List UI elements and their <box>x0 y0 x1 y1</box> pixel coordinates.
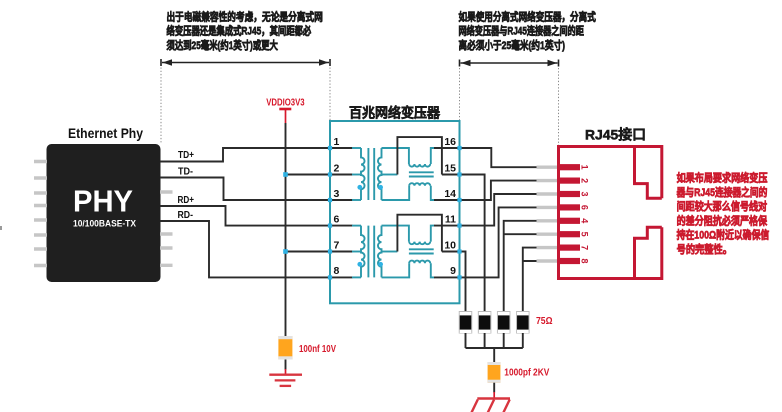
resistor R4 75ohm <box>517 312 530 334</box>
wire RJ45 pins7+8 to R4 <box>523 248 537 312</box>
transformer right pin labels <box>444 136 456 277</box>
center tap over-route wire <box>397 137 442 174</box>
svg-text:RD+: RD+ <box>178 195 195 206</box>
transformer core <box>368 226 374 278</box>
svg-text:7: 7 <box>580 245 590 250</box>
PHY right unconnected pins <box>160 192 173 265</box>
wire pin11 to RJ45 pin3 <box>434 194 537 226</box>
svg-text:器与RJ45连接器之间的: 器与RJ45连接器之间的 <box>676 185 768 199</box>
dotted guide line at transformer left edge <box>329 68 331 121</box>
svg-text:5: 5 <box>580 232 590 237</box>
wire pin9 to RJ45 pin6 <box>434 207 537 277</box>
capacitor C2 1000pf 2KV <box>488 362 501 383</box>
common-mode choke top winding <box>382 226 409 242</box>
svg-text:1: 1 <box>334 136 340 148</box>
RJ45 connector J1 outline <box>559 147 662 279</box>
VDDIO vertical rail wire <box>285 123 287 336</box>
svg-text:10: 10 <box>444 239 456 251</box>
transformer primary winding <box>361 148 365 200</box>
svg-text:出于电磁兼容性的考虑，无论是分离式网: 出于电磁兼容性的考虑，无论是分离式网 <box>167 9 323 23</box>
svg-text:Ethernet Phy: Ethernet Phy <box>68 125 143 141</box>
resistor R2 75ohm <box>478 312 491 334</box>
svg-text:6: 6 <box>334 213 340 225</box>
RJ45 pin bars <box>559 164 581 264</box>
wire RD- to transformer pin 8 <box>160 221 353 277</box>
center tap over-route wire <box>397 215 442 252</box>
primary center tap <box>352 174 361 176</box>
svg-text:8: 8 <box>334 265 340 277</box>
wire pin14 to RJ45 pin2 <box>434 181 537 200</box>
annotation text block red (right) <box>676 171 769 257</box>
chassis ground symbol <box>471 399 510 412</box>
svg-text:PHY: PHY <box>73 185 133 219</box>
earth ground symbol <box>269 375 302 386</box>
resistor R3 75ohm <box>497 312 510 334</box>
RJ45 pin numbers <box>580 165 590 264</box>
choke core <box>409 172 434 176</box>
choke core <box>409 249 434 253</box>
secondary center tap <box>382 174 398 176</box>
svg-text:1000pf 2KV: 1000pf 2KV <box>504 367 549 378</box>
svg-text:TD+: TD+ <box>178 150 194 161</box>
junction node at pin 7 tap <box>283 249 288 254</box>
svg-text:15: 15 <box>444 162 456 174</box>
svg-text:须达到25毫米(约1英寸)或更大: 须达到25毫米(约1英寸)或更大 <box>167 38 278 52</box>
svg-text:9: 9 <box>450 265 456 277</box>
svg-text:VDDIO3V3: VDDIO3V3 <box>266 98 305 109</box>
dimension arrow transformer-to-RJ45 <box>460 60 559 67</box>
dotted guide line at PHY right edge <box>160 68 162 144</box>
svg-text:100nf 10V: 100nf 10V <box>299 344 336 355</box>
transformer secondary winding <box>378 148 382 200</box>
svg-text:号的完整性。: 号的完整性。 <box>677 242 732 256</box>
svg-text:如果使用分离式网络变压器，分离式: 如果使用分离式网络变压器，分离式 <box>459 9 596 23</box>
svg-text:16: 16 <box>444 136 456 148</box>
dotted guide line at transformer right edge <box>459 68 461 121</box>
svg-text:1: 1 <box>580 165 590 170</box>
svg-text:11: 11 <box>445 213 456 225</box>
wire cap C1 to earth ground <box>285 360 287 370</box>
wire RD+ to transformer pin 6 <box>160 206 353 226</box>
annotation text block 1 <box>167 9 323 52</box>
svg-text:RJ45接口: RJ45接口 <box>585 127 646 143</box>
junction node at pin 2 tap <box>283 172 288 177</box>
common-mode choke bottom winding <box>382 186 410 200</box>
svg-text:2: 2 <box>580 178 590 183</box>
secondary center tap <box>382 251 398 253</box>
resistor R1 75ohm <box>459 312 472 334</box>
svg-text:8: 8 <box>580 258 590 263</box>
svg-text:络变压器还是集成式RJ45，其间距都必: 络变压器还是集成式RJ45，其间距都必 <box>167 24 312 38</box>
svg-text:14: 14 <box>444 188 456 200</box>
transformer left pin labels <box>334 136 340 277</box>
svg-text:7: 7 <box>334 239 340 251</box>
VDDIO3V3 power symbol <box>279 108 291 111</box>
left edge fragment <box>0 226 2 230</box>
wire pin16 to RJ45 pin1 <box>434 148 537 167</box>
resistor bottom bus wire <box>466 333 523 362</box>
svg-text:间距较大那么信号线对: 间距较大那么信号线对 <box>677 199 768 213</box>
svg-text:4: 4 <box>580 218 590 223</box>
wire crossing nodes on box edges <box>328 146 462 280</box>
svg-text:10/100BASE-TX: 10/100BASE-TX <box>73 219 137 230</box>
capacitor C1 100nf 10V <box>278 336 292 360</box>
RJ45 connector gray stubs <box>537 167 560 261</box>
wire VDDIO to transformer pin 2 <box>286 174 353 176</box>
wire pin15 down to R2 <box>442 175 485 312</box>
wire RJ45 pins4+5 to R3 <box>504 221 537 312</box>
svg-text:2: 2 <box>334 162 340 174</box>
transformer core <box>368 148 374 200</box>
PHY left pins <box>34 162 47 266</box>
dotted guide line at RJ45 left edge <box>558 68 560 146</box>
wire pin10 down to R1 <box>442 252 466 312</box>
svg-text:百兆网络变压器: 百兆网络变压器 <box>349 105 440 121</box>
annotation text block 2 <box>459 9 596 52</box>
svg-text:RD-: RD- <box>178 210 194 221</box>
svg-text:3: 3 <box>580 191 590 196</box>
common-mode choke top winding <box>382 148 409 164</box>
svg-text:75Ω: 75Ω <box>536 316 553 327</box>
transformer primary winding <box>361 226 365 278</box>
svg-text:6: 6 <box>580 205 590 210</box>
svg-text:如果布局要求网络变压: 如果布局要求网络变压 <box>677 171 768 185</box>
svg-text:TD-: TD- <box>178 166 193 177</box>
svg-text:离必须小于25毫米(约1英寸): 离必须小于25毫米(约1英寸) <box>459 38 566 52</box>
svg-text:3: 3 <box>334 188 340 200</box>
wire cap C2 to chassis ground <box>493 383 495 393</box>
PHY chip U1 <box>47 144 161 282</box>
wire TD+ to transformer pin 1 <box>160 148 353 162</box>
primary center tap <box>352 251 361 253</box>
dimension arrow PHY-to-transformer <box>161 59 330 66</box>
common-mode choke bottom winding <box>382 263 410 277</box>
wire TD- to transformer pin 3 <box>160 178 353 201</box>
wire VDDIO to transformer pin 7 <box>286 251 353 253</box>
svg-text:的差分阻抗必须严格保: 的差分阻抗必须严格保 <box>677 213 768 227</box>
winding polarity dots <box>357 262 362 267</box>
transformer secondary winding <box>378 226 382 278</box>
transformer module box T1 <box>330 121 460 303</box>
winding polarity dots <box>357 185 362 190</box>
svg-text:持在100Ω附近以确保信: 持在100Ω附近以确保信 <box>677 228 770 242</box>
svg-text:网络变压器与RJ45连接器之间的距: 网络变压器与RJ45连接器之间的距 <box>459 24 584 38</box>
